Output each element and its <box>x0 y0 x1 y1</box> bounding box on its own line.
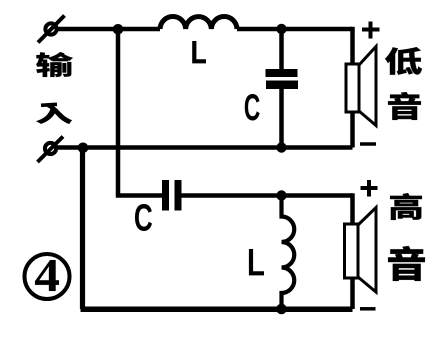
junction node D (C1 bottom) <box>276 142 286 152</box>
label 音 (woofer) <box>388 92 421 120</box>
circled figure number 4 <box>25 254 70 299</box>
wire C2 to tweeter rail <box>181 193 353 198</box>
label 输 (input) <box>36 52 73 77</box>
junction node B (C1 top) <box>276 24 286 34</box>
label L (L2 value) <box>251 249 264 273</box>
wire top rail right segment <box>237 27 353 32</box>
wire top rail left segment <box>58 27 160 32</box>
speaker SP1 (woofer) <box>346 47 376 126</box>
wire bottom rail <box>81 307 353 313</box>
terminal T1 (input top) <box>38 16 65 43</box>
label C (C1 value) <box>245 94 260 121</box>
wire C1 top lead <box>279 29 284 70</box>
wire speaker SP1 top lead <box>350 27 355 65</box>
speaker SP2 (tweeter) <box>345 208 377 293</box>
wire speaker SP2 bottom lead <box>350 278 355 310</box>
label 高 (tweeter) <box>390 193 422 220</box>
terminal T2 (input bottom) <box>38 137 64 163</box>
wire mid rail (common return of woofer) <box>57 145 353 150</box>
label 入 (input) <box>36 103 72 124</box>
wire highpass branch horizontal to C2 <box>116 193 163 198</box>
label L (L1 value) <box>194 41 206 61</box>
label C (C2 value) <box>135 204 152 231</box>
label 低 (woofer) <box>385 47 422 75</box>
plus sign (SP2 +) <box>361 180 378 197</box>
inductor L1 <box>160 17 237 29</box>
wire speaker SP2 top lead <box>350 193 355 225</box>
capacitor C1 (parallel, woofer section) <box>266 69 299 89</box>
junction node C (T2 to bottom rail) <box>78 143 89 154</box>
wire speaker SP1 bottom lead <box>350 112 355 148</box>
capacitor C2 (series, tweeter section) <box>162 180 182 211</box>
wire C1 bottom lead <box>279 89 284 148</box>
minus sign (SP1 -) <box>360 142 376 146</box>
minus sign (SP2 -) <box>360 307 376 311</box>
label 音 (tweeter) <box>388 246 425 281</box>
plus sign (SP1 +) <box>362 22 380 39</box>
inductor L2 (parallel, tweeter section) <box>282 196 295 310</box>
junction node F (L2 bottom) <box>276 304 287 315</box>
wire vertical from node A down to highpass branch <box>116 29 121 196</box>
junction node A (T1 to divider) <box>113 24 124 35</box>
junction node E (L2 top) <box>276 190 286 200</box>
wire left vertical down to bottom rail <box>80 148 85 310</box>
